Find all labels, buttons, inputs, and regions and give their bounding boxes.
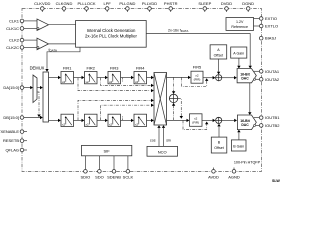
svg-text:EXTIO: EXTIO [265, 16, 277, 21]
svg-text:PLLVDD: PLLVDD [142, 1, 157, 6]
svg-text:SDENB: SDENB [107, 174, 121, 179]
svg-text:DB[15:0]: DB[15:0] [3, 115, 19, 120]
pin DB[15:0] [3, 115, 23, 120]
svg-text:IOUTA1: IOUTA1 [265, 69, 280, 74]
svg-text:DAC: DAC [241, 77, 249, 81]
bypass tap B after FIR1B (dash-dot) [78, 99, 154, 121]
svg-text:Offset: Offset [214, 53, 224, 57]
wire A Offset to adder A [217, 59, 220, 74]
pin LPF [104, 1, 112, 12]
pin PHSTR [164, 1, 178, 12]
svg-text:SCLK: SCLK [123, 174, 134, 179]
pin TXENABLE [0, 129, 27, 134]
pin AVDD [208, 168, 219, 180]
wire FIFO output to FIR1 (path A) [49, 76, 61, 79]
svg-text:QFLAG: QFLAG [5, 148, 19, 153]
B Gain block [231, 140, 246, 151]
wire SIF to SDO pin [98, 156, 100, 170]
svg-text:SDO: SDO [95, 174, 104, 179]
svg-text:RESETB: RESETB [3, 138, 19, 143]
wire crossbar to FIR6 (path B) [167, 119, 190, 122]
FIR5 bypass (dash-dot) [182, 77, 209, 86]
svg-text:IOUTB2: IOUTB2 [265, 123, 280, 128]
svg-text:AVDD: AVDD [208, 174, 219, 179]
wire DEMUX alternate output (dash-dot) down to DB line [37, 92, 41, 117]
pin SCLK [123, 170, 134, 180]
adder A (offset summing node) [216, 75, 222, 81]
svg-text:CLKVDD: CLKVDD [34, 1, 50, 6]
DEMUX block [30, 66, 45, 103]
clock input buffer U1 (CLK1/CLK1C) [37, 19, 49, 31]
pin CLK2 [9, 38, 24, 43]
svg-text:EXTLO: EXTLO [265, 24, 278, 29]
pin PLLLOCK [77, 1, 95, 12]
FIR2 (path B) [85, 114, 98, 126]
wire DAC B output 2 [256, 124, 260, 126]
svg-text:Offset: Offset [214, 146, 224, 150]
svg-text:CLK2: CLK2 [9, 38, 20, 43]
pin DVDD [221, 1, 232, 12]
svg-text:DA[15:0]: DA[15:0] [3, 85, 19, 90]
wire A Gain to DAC A [237, 58, 240, 68]
pin IOUTB2 [259, 123, 280, 128]
svg-text:FIR5: FIR5 [193, 65, 201, 70]
wire fDATA from clock box to FIFO [47, 47, 80, 69]
wire adder A to DAC A [222, 76, 237, 79]
svg-text:(FIR): (FIR) [192, 120, 199, 124]
FIR3 (path B) [108, 114, 121, 126]
bypass tap A after FIR2 (dash-dot) [101, 78, 154, 88]
wire SIF to SDENB pin [113, 156, 115, 170]
svg-text:CLK1: CLK1 [9, 18, 20, 23]
wire reference to EXTLO [254, 25, 260, 27]
svg-text:DEMUX: DEMUX [30, 66, 45, 71]
wire DAC clock pass-through DAC A to DAC B [249, 83, 251, 113]
svg-text:CLK1C: CLK1C [6, 26, 19, 31]
wire crossbar to FIR5 (path A) [167, 76, 191, 79]
wire buffer U2 output to clock generation box [49, 43, 76, 45]
svg-text:Internal Clock Generation: Internal Clock Generation [87, 28, 136, 33]
svg-text:TXENABLE: TXENABLE [0, 129, 19, 134]
B Offset block [211, 137, 227, 153]
wire FIR4B to crossbar [147, 119, 154, 122]
wire adder B to DAC B [222, 119, 237, 122]
wire DAC B output 1 [254, 117, 260, 119]
svg-text:cos: cos [150, 139, 156, 143]
pin IOUTA1 [259, 69, 280, 74]
svg-text:B Gain: B Gain [233, 144, 244, 148]
wire FIR3 to FIR4 [121, 76, 134, 79]
FIR1 (path B) [61, 114, 74, 126]
wire reference to EXTIO [254, 18, 260, 20]
wire DB input to FIFO [24, 116, 43, 119]
pin DGND [242, 1, 254, 12]
svg-text:1.2V: 1.2V [236, 20, 244, 24]
svg-text:(FIR): (FIR) [194, 77, 201, 81]
pin SDO [95, 170, 104, 180]
svg-text:DGND: DGND [242, 1, 254, 6]
wire FIR5 to adder A [203, 76, 215, 79]
svg-text:NCO: NCO [158, 150, 167, 155]
wire NCO sin to crossbar [162, 125, 171, 146]
NCO block [147, 146, 178, 156]
pin SDENB [107, 170, 121, 180]
wire 2x-16x fDAC clock from clock box to DAC A [146, 34, 250, 67]
svg-text:SLEEP: SLEEP [198, 1, 211, 6]
pin EXTLO [259, 24, 278, 29]
svg-text:DAC: DAC [241, 123, 249, 127]
svg-text:FIR3: FIR3 [110, 66, 118, 71]
pin DA[15:0] [3, 85, 23, 90]
wire SIF to SDIO pin [84, 156, 86, 170]
svg-text:DVDD: DVDD [221, 1, 232, 6]
wire adder output to B path (dash-dot) [178, 98, 183, 118]
FIR2 (path A) [85, 66, 98, 84]
wire FIFO output to FIR1 (path B) [49, 119, 61, 122]
FIR6 (path B) [190, 114, 203, 127]
FIFO block [43, 72, 49, 122]
FIR4 (path A) [134, 66, 147, 84]
svg-text:PLLGND: PLLGND [119, 1, 135, 6]
wire B Gain to DAC B [237, 130, 240, 140]
wire A path down into adder (dash-dot) [172, 77, 175, 94]
wire FIR2B to FIR3B [97, 119, 108, 122]
SIF block (serial interface) [82, 145, 132, 155]
DAC A (16-bit DAC) [237, 69, 256, 83]
svg-text:SLWS: SLWS [272, 179, 280, 182]
wire SIF to SCLK pin [127, 156, 129, 170]
wire FIR4 to crossbar [147, 76, 154, 79]
pin CLKVDD [34, 1, 50, 12]
svg-text:CLK2C: CLK2C [6, 45, 19, 50]
wire FIR3B to FIR4B [121, 119, 134, 122]
svg-text:FIR1: FIR1 [63, 66, 71, 71]
internal clock generation / PLL clock multiplier block [76, 21, 147, 48]
wire CLK2C to buffer [24, 46, 37, 48]
svg-text:fDATA: fDATA [49, 48, 58, 53]
chip border (dash-dot outline) [22, 9, 261, 172]
svg-text:A Gain: A Gain [233, 52, 244, 56]
pin IOUTA2 [259, 77, 280, 82]
svg-text:Reference: Reference [231, 25, 248, 29]
bypass tap A after FIR1 (dash-dot) [78, 78, 154, 93]
svg-text:SDIO: SDIO [81, 174, 91, 179]
svg-text:100-Pin HTQFP: 100-Pin HTQFP [234, 161, 261, 165]
wire CLK2 to buffer [24, 39, 37, 41]
svg-text:PHSTR: PHSTR [164, 1, 178, 6]
wire NCO cos to crossbar [150, 125, 161, 146]
wire FIR2 to FIR3 [97, 76, 108, 79]
pin IOUTB1 [259, 115, 280, 120]
svg-text:CLKGND: CLKGND [56, 1, 73, 6]
svg-text:FIR4: FIR4 [136, 66, 145, 71]
svg-text:FIR2: FIR2 [86, 66, 94, 71]
pin QFLAG [5, 148, 27, 153]
pin CLK1 [9, 18, 24, 23]
svg-text:AGND: AGND [228, 174, 240, 179]
wire DEMUX to FIFO (upper) [37, 86, 43, 89]
wire CLK1C to buffer [24, 27, 37, 29]
wire buffer U1 output to clock generation box [49, 24, 76, 26]
pin PLLVDD [142, 1, 157, 12]
wire DAC A output 1 [254, 70, 260, 72]
wire CLK1 to buffer [24, 20, 37, 22]
svg-text:PLLLOCK: PLLLOCK [77, 1, 95, 6]
pin SDIO [81, 170, 91, 180]
svg-text:BIASJ: BIASJ [265, 36, 276, 41]
junction tick after FIR3B (path B) [122, 116, 124, 120]
wire FIR1 to FIR2 [74, 76, 85, 79]
svg-text:IOUTA2: IOUTA2 [265, 77, 280, 82]
A Offset block [210, 45, 227, 59]
FIR3 (path A) [108, 66, 121, 84]
wire DA input to DEMUX [24, 86, 33, 89]
A Gain block [231, 47, 247, 58]
adder (A+B combine, dash-dot path) [169, 94, 177, 102]
1.2V reference block [226, 18, 254, 31]
FIR1 (path A) [61, 66, 74, 84]
wire B Offset to adder B [217, 124, 220, 137]
pin PLLGND [119, 1, 135, 12]
svg-text:SIF: SIF [103, 149, 110, 154]
junction tick after FIR3 (path A) [122, 78, 124, 82]
svg-text:IOUTB1: IOUTB1 [265, 115, 280, 120]
clock input buffer U2 (CLK2/CLK2C) [37, 38, 49, 50]
bypass tap B after FIR2B (dash-dot) [101, 104, 154, 121]
wire FIR1B to FIR2B [74, 119, 85, 122]
pin RESETB [3, 138, 27, 143]
FIR5 (path A) [191, 65, 203, 84]
wire DAC A output 2 [256, 78, 260, 80]
FIR6 bypass (dash-dot) [183, 120, 208, 129]
wire B path up into adder (dash-dot) [172, 103, 175, 121]
svg-text:sin: sin [166, 139, 171, 143]
pin BIASJ [259, 36, 276, 41]
pin CLKGND [56, 1, 73, 12]
crossbar / coarse mixer block [154, 73, 167, 126]
svg-text:2x-16x PLL Clock Multiplier: 2x-16x PLL Clock Multiplier [85, 33, 137, 38]
pin CLK1C [6, 26, 24, 31]
pin AGND [228, 168, 240, 180]
DAC B (16-bit DAC) [237, 115, 256, 130]
svg-text:LPF: LPF [104, 1, 112, 6]
adder B (offset summing node) [216, 117, 222, 123]
svg-text:2x-16x fDATA: 2x-16x fDATA [168, 29, 188, 34]
pin SLEEP [198, 1, 211, 12]
pin EXTIO [259, 16, 277, 21]
FIR4 (path B) [134, 114, 147, 126]
pin CLK2C [6, 45, 24, 50]
wire FIR6 to adder B [202, 119, 215, 122]
